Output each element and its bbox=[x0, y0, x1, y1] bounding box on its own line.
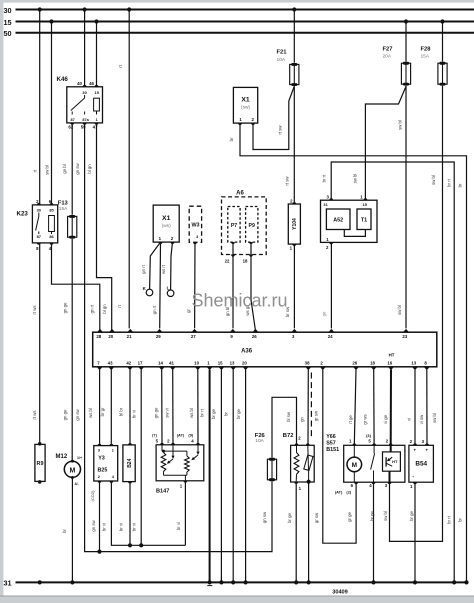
svg-text:gn rt: gn rt bbox=[141, 264, 146, 273]
junction bus31 M12 bbox=[70, 580, 74, 584]
dashed shield wire B72 bbox=[310, 373, 312, 439]
svg-text:ws rt: ws rt bbox=[161, 264, 166, 274]
svg-text:20A: 20A bbox=[383, 54, 392, 60]
svg-text:62: 62 bbox=[68, 125, 73, 130]
svg-text:br: br bbox=[458, 518, 463, 522]
svg-text:(7): (7) bbox=[152, 433, 157, 438]
wire A36 pin7 to Y3 pin3 bbox=[99, 370, 101, 444]
svg-text:gn rt: gn rt bbox=[90, 304, 95, 313]
svg-text:(ws): (ws) bbox=[162, 223, 171, 229]
svg-text:41: 41 bbox=[169, 360, 174, 365]
wire A36 pin8 to B54 pin3 bbox=[426, 370, 428, 446]
wire A36 pin41 to B147 pin2 bbox=[172, 370, 174, 445]
svg-text:27: 27 bbox=[191, 334, 196, 339]
wire A36 pin38 to B72 bbox=[307, 370, 309, 446]
A6 pin 22 terminal bbox=[230, 255, 235, 258]
svg-text:A36: A36 bbox=[241, 349, 253, 355]
svg-text:18: 18 bbox=[370, 360, 375, 365]
wire A36 pin18 to Y66 pin5 bbox=[373, 370, 375, 446]
junction bus31 br bbox=[464, 580, 468, 584]
svg-text:R9: R9 bbox=[37, 461, 44, 467]
svg-text:gn: gn bbox=[300, 417, 305, 422]
wire bus30 to K46 pin40 bbox=[84, 10, 86, 87]
junction bus31 pin13 bbox=[231, 580, 235, 584]
wire M12 to bus31 bbox=[71, 478, 73, 583]
svg-text:gr ws: gr ws bbox=[363, 414, 368, 424]
connector strip A36 bbox=[93, 332, 437, 367]
svg-text:15: 15 bbox=[218, 360, 223, 365]
wire A52 to T1 internal bbox=[344, 230, 365, 237]
svg-text:gn rt: gn rt bbox=[152, 305, 157, 314]
svg-text:21: 21 bbox=[127, 334, 132, 339]
wire X1(ws) pin1 to A36 pin29 bbox=[159, 242, 162, 328]
svg-text:Y104: Y104 bbox=[292, 218, 298, 230]
junction bus30/F21 bbox=[292, 7, 296, 11]
svg-text:br vi: br vi bbox=[119, 523, 124, 531]
svg-text:(AT): (AT) bbox=[177, 433, 185, 438]
wire F21 to Y104 pin2 bbox=[293, 86, 295, 204]
svg-text:B147: B147 bbox=[156, 489, 169, 495]
svg-text:rt sw: rt sw bbox=[285, 176, 290, 186]
svg-text:B25: B25 bbox=[98, 467, 108, 473]
svg-text:F13: F13 bbox=[58, 200, 69, 206]
svg-text:87a: 87a bbox=[82, 118, 89, 122]
svg-text:ws bl: ws bl bbox=[189, 408, 194, 418]
wire K46 pin59 to F26 gn/sw bbox=[85, 123, 272, 552]
svg-text:br ge: br ge bbox=[409, 510, 414, 520]
svg-text:K23: K23 bbox=[17, 211, 29, 218]
svg-text:17: 17 bbox=[138, 360, 143, 365]
svg-text:(AT): (AT) bbox=[335, 489, 343, 494]
wire bus30 to F21 bbox=[293, 10, 295, 63]
connector W3 bbox=[189, 206, 201, 242]
wire A36 pin13 to B54 pin2 bbox=[414, 370, 416, 446]
svg-text:gn ge: gn ge bbox=[63, 409, 68, 420]
svg-text:br: br bbox=[62, 529, 67, 533]
svg-text:rt ge: rt ge bbox=[348, 415, 353, 424]
svg-text:15: 15 bbox=[4, 18, 12, 27]
svg-text:sw bl: sw bl bbox=[431, 175, 436, 185]
junction B72 bottom bbox=[307, 480, 311, 484]
svg-text:gn sw: gn sw bbox=[262, 511, 267, 523]
wire A36 pin20 to bus31 bbox=[245, 370, 247, 583]
HT element inside bbox=[390, 445, 392, 452]
svg-text:rt ws: rt ws bbox=[32, 305, 37, 314]
svg-text:13: 13 bbox=[411, 360, 416, 365]
wire bus15 to K46 pin46 bbox=[96, 22, 98, 87]
svg-text:B72: B72 bbox=[283, 433, 294, 439]
A36 top pin 9 bbox=[230, 329, 236, 332]
svg-text:-: - bbox=[412, 474, 414, 480]
svg-text:A6: A6 bbox=[236, 191, 244, 197]
junction bus15/K23 bbox=[49, 19, 53, 23]
wire K23 pin8 to R9 bbox=[39, 243, 41, 444]
svg-text:br: br bbox=[224, 412, 229, 416]
switch S57 inside bbox=[373, 445, 375, 453]
wire Y3 pin2 to gn/sw net bbox=[99, 481, 101, 552]
svg-text:B151: B151 bbox=[326, 447, 339, 453]
svg-text:br: br bbox=[458, 183, 463, 187]
svg-text:46: 46 bbox=[89, 81, 94, 86]
bus 50 wire bbox=[16, 32, 474, 34]
wire F26 to B72 pin2 bbox=[272, 397, 297, 457]
svg-text:20: 20 bbox=[242, 360, 247, 365]
svg-text:P7: P7 bbox=[231, 223, 237, 229]
sensor P9 bbox=[246, 207, 258, 243]
wire W3 pin3 to A36 pin27 bbox=[194, 242, 196, 328]
svg-text:gn bl: gn bl bbox=[62, 164, 67, 173]
svg-text:gr sw: gr sw bbox=[314, 512, 319, 523]
svg-text:gr ge: gr ge bbox=[347, 511, 352, 521]
svg-text:B54: B54 bbox=[415, 461, 427, 468]
svg-text:X1: X1 bbox=[241, 97, 250, 104]
svg-text:22: 22 bbox=[225, 259, 230, 264]
svg-text:(sw): (sw) bbox=[241, 105, 250, 111]
wire Y104 pin1 to A36 pin3 bbox=[293, 244, 295, 328]
A36 top pin 23 bbox=[403, 329, 409, 332]
svg-text:(CO2): (CO2) bbox=[90, 490, 95, 502]
svg-text:sw vi: sw vi bbox=[165, 408, 170, 418]
wire X1(ws) pin2 to L bbox=[171, 242, 173, 290]
svg-text:40: 40 bbox=[77, 81, 82, 86]
svg-text:16: 16 bbox=[387, 360, 392, 365]
svg-text:87: 87 bbox=[70, 118, 74, 122]
A36 top pin 29 bbox=[156, 329, 162, 332]
junction bus31 br/rt bbox=[452, 580, 456, 584]
svg-text:br vi: br vi bbox=[101, 523, 106, 531]
junction bus31 pin20 bbox=[244, 580, 248, 584]
svg-text:br vi: br vi bbox=[176, 522, 181, 530]
A36 top pin 3 bbox=[291, 329, 297, 332]
svg-text:X1: X1 bbox=[162, 215, 171, 222]
A36 top pin 21 bbox=[127, 329, 133, 332]
sensor B24 bbox=[128, 443, 132, 445]
wire K46 pin62 to F13 bbox=[71, 123, 73, 215]
svg-text:18: 18 bbox=[243, 259, 248, 264]
junction bus31 pin1 bbox=[208, 580, 212, 584]
wire A36 pin26 to Y66 pin1 bbox=[354, 370, 356, 446]
svg-text:30: 30 bbox=[82, 90, 86, 95]
svg-text:br ge: br ge bbox=[287, 512, 292, 522]
wire Y3 pin4 br/vi net bbox=[111, 481, 185, 545]
svg-text:50: 50 bbox=[4, 29, 12, 38]
junction bus31 B54 pin1 bbox=[413, 580, 417, 584]
svg-text:24: 24 bbox=[328, 334, 333, 339]
svg-text:br rt: br rt bbox=[446, 178, 451, 186]
junction bus30/K46 pin40 bbox=[83, 7, 87, 11]
wire B72 pin1 to bus31 bbox=[295, 482, 297, 582]
page frame bottom band bbox=[0, 596, 474, 603]
svg-text:bl br: bl br bbox=[119, 407, 124, 416]
svg-text:HT: HT bbox=[389, 353, 395, 358]
svg-text:1/+: 1/+ bbox=[77, 456, 82, 460]
svg-text:26: 26 bbox=[352, 360, 357, 365]
svg-text:sw bl: sw bl bbox=[397, 305, 402, 315]
svg-text:br gr: br gr bbox=[100, 407, 105, 416]
junction br/vi net B24 bbox=[128, 543, 132, 547]
svg-text:Y3: Y3 bbox=[98, 456, 105, 462]
bus 31 wire bbox=[16, 581, 469, 583]
svg-text:30: 30 bbox=[37, 207, 41, 212]
junction bus15/F28 bbox=[440, 19, 444, 23]
svg-text:K46: K46 bbox=[57, 76, 69, 83]
svg-text:T1: T1 bbox=[361, 218, 367, 224]
motor M inside Y66 bbox=[353, 445, 355, 457]
svg-text:br vi: br vi bbox=[131, 410, 136, 418]
wire A36 pin15 to bus31 bbox=[220, 370, 222, 583]
wire K46 pin47 to A36 pin20 bbox=[97, 123, 112, 331]
svg-text:F21: F21 bbox=[277, 50, 288, 56]
svg-text:ge: ge bbox=[321, 311, 326, 316]
svg-text:10: 10 bbox=[194, 360, 199, 365]
svg-text:S57: S57 bbox=[326, 440, 336, 446]
tick mark under bus31 bbox=[207, 585, 212, 587]
wire B24 to br/vi net bbox=[129, 482, 131, 546]
svg-text:30409: 30409 bbox=[332, 590, 348, 596]
svg-text:br rt: br rt bbox=[322, 174, 327, 182]
svg-text:29: 29 bbox=[156, 334, 161, 339]
wire A52 pin3 to bus31 bbox=[331, 162, 454, 582]
wire B54 pin1 to bus31 bbox=[414, 482, 416, 582]
wire X1(ws) pin1 to K bbox=[150, 242, 161, 289]
svg-text:W3: W3 bbox=[191, 223, 199, 229]
svg-text:M12: M12 bbox=[56, 454, 68, 460]
svg-text:38: 38 bbox=[305, 360, 310, 365]
wire F21 to X1(sw) pin2 bbox=[253, 86, 294, 149]
wire A36 pin2 to Y66 pin6 bbox=[323, 370, 356, 544]
svg-text:ws bl: ws bl bbox=[88, 408, 93, 418]
svg-text:br ge: br ge bbox=[211, 408, 216, 418]
wire A52 pin2 to A36 pin24 bbox=[330, 242, 332, 328]
junction bus30/wire rt bbox=[127, 7, 131, 11]
svg-text:gn ge: gn ge bbox=[154, 407, 159, 418]
svg-text:(9): (9) bbox=[188, 433, 193, 438]
svg-text:HT: HT bbox=[392, 459, 398, 464]
wire rt bus30 to A36 pin21 bbox=[128, 10, 130, 329]
svg-text:B24: B24 bbox=[127, 458, 133, 467]
junction br/vi net pin17 bbox=[139, 543, 143, 547]
svg-text:br rt: br rt bbox=[200, 408, 205, 416]
wire bus15 to F28 bbox=[442, 22, 444, 62]
wire K23 pin4 to A36 pin28 bbox=[52, 243, 100, 331]
svg-text:15A: 15A bbox=[59, 206, 68, 212]
valve Y104 bbox=[288, 204, 300, 244]
svg-text:31: 31 bbox=[4, 579, 12, 588]
svg-text:+: + bbox=[426, 448, 429, 453]
wire A36 pin10 to B147 pin4 bbox=[197, 370, 199, 445]
svg-text:gn sw: gn sw bbox=[75, 408, 80, 420]
page frame top band bbox=[0, 0, 474, 3]
svg-text:gn ge: gn ge bbox=[63, 302, 68, 313]
svg-text:gr: gr bbox=[186, 309, 191, 313]
svg-text:br vi: br vi bbox=[131, 523, 136, 531]
svg-text:F28: F28 bbox=[421, 46, 432, 52]
wire B72 junction to bus31 bbox=[308, 482, 310, 583]
svg-text:sw bl: sw bl bbox=[353, 174, 358, 184]
wire F13 to M12 bbox=[71, 239, 73, 461]
svg-text:1: 1 bbox=[96, 118, 98, 122]
junction bus31 B72 bbox=[307, 580, 311, 584]
svg-text:42: 42 bbox=[126, 360, 131, 365]
svg-text:Y66: Y66 bbox=[326, 434, 336, 440]
wire P9 pin18 to A36 pin26 bbox=[251, 242, 256, 331]
wire X1(sw) pin1 br to bus31 bbox=[240, 123, 467, 582]
svg-text:vi sw: vi sw bbox=[419, 414, 424, 424]
svg-text:rt sw: rt sw bbox=[278, 125, 283, 135]
svg-text:28: 28 bbox=[96, 334, 101, 339]
A6 pin 18 terminal bbox=[248, 255, 253, 258]
wire bus30 to K23 pin2 bbox=[39, 10, 41, 205]
svg-text:Shemicar.ru: Shemicar.ru bbox=[192, 291, 288, 311]
svg-text:bl sw: bl sw bbox=[286, 411, 291, 422]
svg-text:sw bl: sw bl bbox=[398, 120, 403, 130]
junction gn/sw net Y3 pin2 bbox=[97, 550, 101, 554]
svg-text:87: 87 bbox=[37, 234, 41, 239]
svg-text:gn sw: gn sw bbox=[91, 519, 96, 531]
wire B147 pin1 down bbox=[184, 481, 186, 546]
page frame left band bbox=[0, 0, 3, 597]
svg-text:vi: vi bbox=[406, 418, 411, 421]
svg-text:sw bl: sw bl bbox=[44, 165, 49, 175]
wire A36 pin16 HT to Y66 pin2 bbox=[390, 370, 392, 446]
wire A36 pin43 to Y3 pin1 bbox=[110, 370, 112, 444]
wire A36 pin14 to B147 pin5 bbox=[161, 370, 163, 445]
svg-text:+: + bbox=[414, 448, 417, 453]
wire F28 to Y66 pin3 bbox=[390, 86, 443, 542]
junction bus31 R9 bbox=[38, 580, 42, 584]
svg-text:sw bl: sw bl bbox=[432, 413, 437, 423]
svg-text:bl gn: bl gn bbox=[102, 304, 107, 314]
svg-text:14: 14 bbox=[158, 360, 163, 365]
junction bus15/F27 bbox=[404, 19, 408, 23]
svg-text:59: 59 bbox=[81, 125, 86, 130]
svg-text:vi ge: vi ge bbox=[383, 414, 388, 424]
wire A36 pin17 br/vi bbox=[140, 370, 142, 546]
svg-text:P9: P9 bbox=[249, 223, 255, 229]
svg-text:F27: F27 bbox=[383, 46, 393, 52]
svg-text:gn sw: gn sw bbox=[75, 162, 80, 174]
svg-text:A52: A52 bbox=[333, 218, 343, 224]
A36 top pin 28 bbox=[97, 329, 103, 332]
junction bus31 pin15 bbox=[219, 580, 223, 584]
wire F27 to T1 pin1 bbox=[365, 86, 406, 200]
svg-text:gr sw: gr sw bbox=[314, 410, 319, 421]
bus 15 wire bbox=[16, 21, 474, 23]
amplifier A52 bbox=[326, 209, 350, 230]
junction bus30/K23 bbox=[38, 7, 42, 11]
svg-text:bl gn: bl gn bbox=[87, 164, 92, 174]
svg-text:M: M bbox=[352, 462, 357, 469]
svg-text:30: 30 bbox=[4, 6, 12, 15]
wire A36 pin1 br/rt to bus31 bbox=[209, 370, 211, 583]
wire bus15 to K23 pin6 bbox=[51, 22, 53, 205]
svg-text:br: br bbox=[229, 137, 234, 141]
connector X1 (sw) bbox=[233, 87, 257, 123]
coil T1 bbox=[357, 209, 371, 230]
svg-text:43: 43 bbox=[108, 360, 113, 365]
svg-text:26: 26 bbox=[252, 334, 257, 339]
svg-text:br rt: br rt bbox=[446, 515, 451, 523]
svg-text:10A: 10A bbox=[255, 438, 264, 444]
junction bus31 Y66 pin4 bbox=[371, 580, 375, 584]
junction bus15/K46 pin46 bbox=[94, 19, 98, 23]
unit A52/T1 box bbox=[321, 200, 378, 242]
wire bus15 to F27 bbox=[405, 22, 407, 62]
svg-text:rt ws: rt ws bbox=[32, 410, 37, 419]
A36 top pin 27 bbox=[191, 329, 197, 332]
wire A36 pin13 to bus31 bbox=[232, 370, 234, 583]
svg-text:15A: 15A bbox=[421, 54, 430, 60]
A36 top pin 20 bbox=[109, 329, 115, 332]
connector X1 (ws) bbox=[153, 205, 179, 242]
svg-text:10A: 10A bbox=[277, 57, 286, 63]
svg-text:M: M bbox=[69, 467, 75, 474]
A36 top pin 24 bbox=[328, 329, 334, 332]
wire Y66 pin4 to bus31 bbox=[373, 482, 375, 582]
bus 30 wire bbox=[16, 9, 474, 11]
valve Y3/B25 bbox=[98, 444, 102, 446]
svg-text:23: 23 bbox=[402, 334, 407, 339]
svg-text:sw bl: sw bl bbox=[383, 511, 388, 521]
svg-text:(2): (2) bbox=[346, 489, 351, 494]
svg-text:47: 47 bbox=[93, 125, 98, 130]
resistor R9 bbox=[38, 442, 42, 446]
svg-text:br ge: br ge bbox=[236, 408, 241, 418]
svg-text:br ge: br ge bbox=[370, 510, 375, 520]
A36 top pin 26 bbox=[252, 329, 258, 332]
wire P7 pin22 to A36 pin9 bbox=[232, 242, 234, 328]
svg-text:20: 20 bbox=[108, 334, 113, 339]
sensor P7 bbox=[228, 207, 240, 243]
svg-text:(3): (3) bbox=[366, 433, 371, 438]
junction bus31 B72 pin1 bbox=[294, 580, 298, 584]
wire A36 pin42 to B24 bbox=[129, 370, 131, 445]
svg-text:13: 13 bbox=[230, 360, 235, 365]
wire F27 to A36 pin23 bbox=[405, 86, 407, 329]
